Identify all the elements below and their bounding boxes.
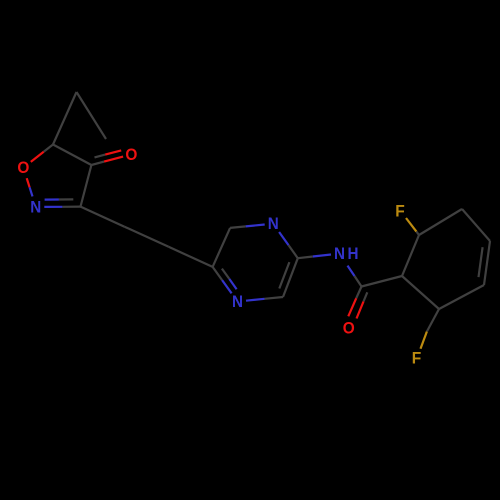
bond C7=O8 inner gray (364, 292, 368, 301)
svg-text:N: N (334, 244, 345, 263)
svg-text:F: F (412, 349, 422, 368)
pyrazine N1-C2 (second half) (289, 245, 298, 258)
pyrazine C3p-N4 (265, 297, 284, 299)
pyrazine N4=C5p double-bond inner line half2 (222, 269, 229, 279)
bond F1-C2b gray half (416, 232, 419, 235)
bond N2=C3 double-bond inner line (45, 198, 59, 200)
bond F1-C2b gold half (406, 218, 416, 232)
bond N2=C3 (second half) (62, 206, 80, 208)
bond T1-T2 (77, 92, 107, 139)
bond C4=O6 ketone double-bond inner line half2 (105, 150, 121, 154)
bond C5-O1 (44, 145, 53, 152)
svg-text:O: O (125, 145, 137, 164)
bond C5-O1 (second half) (31, 152, 44, 162)
benzene C2b-C3b (419, 209, 462, 235)
benzene C4b=C5b double-bond inner line (479, 247, 483, 277)
bond N7-C7 (second half) (355, 276, 362, 287)
svg-text:N: N (268, 214, 279, 233)
bond N2=C3 double-bond inner line half2 (59, 198, 73, 200)
bond C4=O6 ketone double-bond inner line (95, 155, 106, 158)
bond O1-N2 (second half) (30, 187, 33, 196)
svg-text:N: N (30, 198, 41, 217)
benzene C6b-C1b (402, 276, 439, 309)
pyrazine C6p-N1 (second half) (246, 225, 265, 227)
pyrazine C6p-N1 (230, 226, 246, 228)
bond C4=O6 ketone (91, 162, 104, 165)
pyrazine N4=C5p (second half) (213, 267, 223, 280)
svg-text:F: F (395, 202, 405, 221)
pyrazine N4=C5p (222, 280, 232, 293)
pyrazine N4=C5p double-bond inner line (229, 279, 236, 289)
bond Cb-C5p (169, 247, 213, 267)
svg-text:O: O (343, 319, 355, 338)
svg-text:N: N (232, 292, 243, 311)
bond F2-C6b gold half (421, 332, 427, 349)
pyrazine C2=C3p double-bond inner line (279, 262, 289, 288)
bond F2-C6b gray half (427, 309, 439, 332)
bond C7-C1b (362, 276, 403, 287)
bond N7-C7 (348, 266, 355, 276)
bond N2=C3 (44, 206, 62, 208)
svg-text:H: H (348, 244, 359, 263)
pyrazine C3p-N4 (second half) (246, 299, 265, 301)
pyrazine N1-C2 (279, 232, 288, 245)
bond C7=O8 inner red (357, 302, 364, 319)
pyrazine C2=C3p (283, 258, 298, 297)
bond C3-C4 (81, 165, 92, 207)
bond C7=O8 gray half (356, 287, 361, 299)
bond C2-N7 (second half) (313, 255, 331, 257)
benzene C3b-C4b (462, 209, 490, 241)
bond C2-N7 (298, 257, 313, 259)
alkyne Ca-Cb (125, 227, 169, 247)
benzene C4b=C5b (484, 241, 490, 285)
benzene C1b-C2b (402, 235, 419, 276)
bond C4-C5 (53, 145, 91, 166)
bond C7=O8 red half (348, 298, 356, 316)
bond C3-Ca (81, 207, 125, 227)
benzene C5b-C6b (439, 285, 484, 309)
svg-text:O: O (17, 158, 29, 177)
bond C5-T1 (53, 92, 77, 145)
bond C4=O6 ketone (second half) (104, 157, 123, 162)
pyrazine C5p-C6p (213, 228, 231, 267)
bond O1-N2 (27, 178, 30, 187)
